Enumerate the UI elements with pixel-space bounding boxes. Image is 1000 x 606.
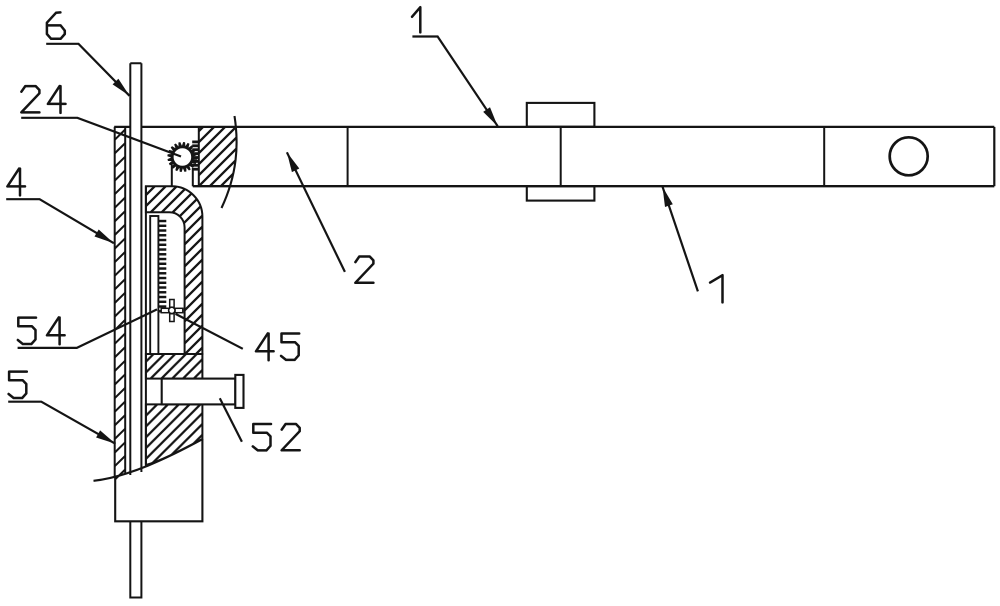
- leader for label 52: [220, 398, 242, 442]
- lower block hatched above break: [146, 404, 203, 465]
- gear 24 teeth: [168, 142, 197, 171]
- arm bar 1 top edge: [114, 126, 994, 128]
- leader for label 2: [287, 152, 345, 272]
- plate 4 hatching: [115, 130, 126, 480]
- bar section left edge line: [198, 127, 200, 186]
- lower box below break: [115, 439, 202, 521]
- pin 52 end cap: [235, 375, 243, 408]
- bar segment divider right: [823, 127, 825, 186]
- arm bar 1 bottom edge: [193, 185, 995, 187]
- hole circle in bar right section: [890, 137, 928, 175]
- label 24: [21, 86, 39, 112]
- label 2: [355, 257, 373, 283]
- break curve across body: [94, 439, 203, 481]
- label 1 right: [710, 275, 722, 302]
- bar segment divider left: [347, 127, 349, 186]
- rod 6 lower end below box: [130, 521, 141, 597]
- label 5: [9, 372, 27, 398]
- vertical mesh rack beside gear: [192, 141, 199, 144]
- leader for label 4: [6, 199, 114, 243]
- label 54: [18, 318, 36, 344]
- bar break arc: [222, 116, 237, 208]
- leader for label 24: [21, 118, 181, 157]
- adjuster screw 45 arms: [161, 300, 183, 322]
- rack teeth on frame: [158, 220, 166, 222]
- plate 4 outline: [115, 127, 126, 476]
- slide frame 54: [150, 216, 158, 354]
- housing body left edge: [145, 186, 147, 464]
- label 52: [253, 424, 271, 450]
- label 45: [256, 334, 274, 361]
- leader for label 54: [18, 309, 157, 348]
- gear 24 body circle: [172, 147, 192, 167]
- leader for label 1 top: [412, 37, 497, 127]
- label 4: [7, 169, 25, 196]
- rod 6 vertical shaft: [130, 63, 141, 475]
- leader for label 6: [46, 44, 129, 96]
- gear column right line: [192, 168, 194, 186]
- collar top block on bar: [527, 103, 595, 127]
- arm bar 1 right end edge: [993, 127, 995, 186]
- label 1 top: [412, 7, 420, 32]
- bar section hatched area: [199, 127, 237, 186]
- gear column left line: [171, 165, 173, 187]
- pin 52 body: [162, 379, 236, 405]
- bar segment divider middle: [560, 127, 562, 186]
- leader for label 45: [176, 314, 243, 349]
- label 6: [47, 12, 65, 38]
- adjuster screw 45 hub: [169, 307, 175, 313]
- collar bottom block on bar: [527, 186, 595, 200]
- housing top band and column hatched: [146, 186, 203, 354]
- leader for label 5: [8, 402, 115, 444]
- step block hatched: [146, 354, 203, 379]
- leader for label 1 right: [663, 187, 698, 292]
